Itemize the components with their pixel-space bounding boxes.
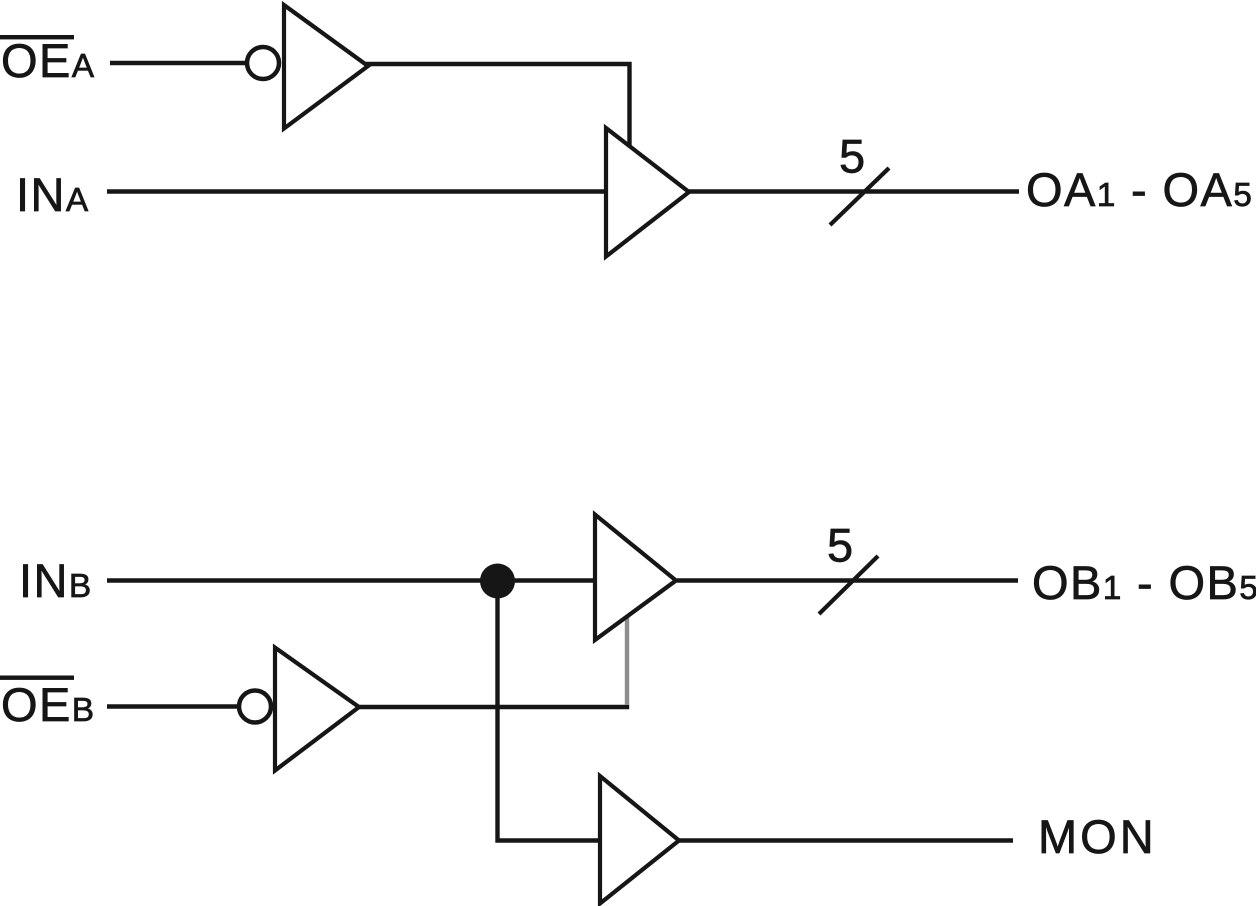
- junction node B (dot): [480, 564, 515, 599]
- svg-text:OA1 - OA5: OA1 - OA5: [1026, 163, 1253, 216]
- wire IN_A to buffer U2 input: [107, 189, 606, 193]
- wire monitor buffer U5 output to MON: [679, 838, 1013, 842]
- inverter U3 input bubble: [239, 691, 271, 723]
- svg-text:5: 5: [839, 130, 867, 183]
- svg-text:5: 5: [827, 519, 855, 572]
- svg-text:MON: MON: [1038, 810, 1157, 863]
- node OE_B label: [0, 676, 95, 732]
- wire OE_B input to inverter U3 bubble: [107, 704, 238, 708]
- inverter U1 triangle: [284, 5, 368, 129]
- bus slash A (width 5): [830, 168, 889, 225]
- wire U1 output, right then down to enable of buffer U2: [366, 64, 630, 150]
- wire OE_A input to inverter bubble: [110, 61, 247, 65]
- buffer U4 triangle: [595, 515, 676, 641]
- wire enable riser to buffer U4 (gray vertical): [625, 612, 629, 705]
- wire junction down then right to monitor buffer U5: [498, 581, 601, 841]
- node OE_A label: [0, 34, 95, 87]
- svg-text:OB1 - OB5: OB1 - OB5: [1032, 556, 1256, 609]
- inverter U1 input bubble: [247, 47, 279, 79]
- buffer U2 triangle: [606, 128, 689, 257]
- wire IN_B to buffer U4 input: [107, 578, 595, 582]
- wire buffer U2 output to OA bus: [688, 189, 1019, 193]
- wire buffer U4 output to OB bus: [677, 578, 1018, 582]
- monitor buffer U5 triangle: [600, 776, 679, 904]
- wire U3 output to enable corner (black horizontal): [357, 705, 629, 709]
- bus slash B (width 5): [819, 556, 878, 614]
- inverter U3 triangle: [275, 648, 359, 771]
